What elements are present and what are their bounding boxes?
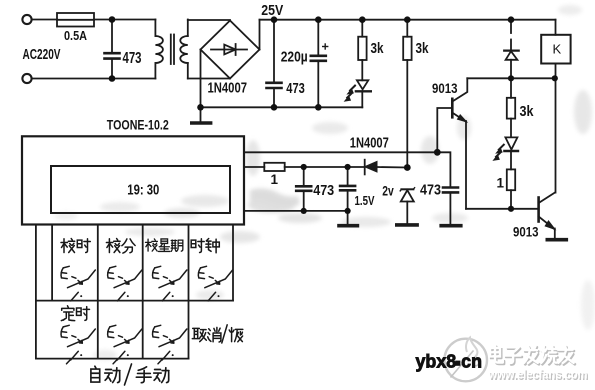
svg-text:1: 1	[497, 176, 505, 191]
svg-text:3k: 3k	[416, 41, 430, 57]
svg-text:1.5V: 1.5V	[355, 194, 376, 208]
svg-text:220µ: 220µ	[281, 50, 308, 66]
svg-text:www.elecfans.com: www.elecfans.com	[488, 368, 588, 382]
svg-text:0.5A: 0.5A	[64, 29, 87, 43]
svg-text:TOONE-10.2: TOONE-10.2	[107, 117, 169, 133]
svg-text:473: 473	[286, 80, 305, 97]
svg-text:ybx8 cn: ybx8 cn	[416, 351, 483, 372]
svg-text:9013: 9013	[432, 81, 458, 96]
svg-text:473: 473	[123, 50, 142, 67]
svg-text:3k: 3k	[371, 41, 385, 57]
svg-text:1N4007: 1N4007	[350, 136, 389, 152]
svg-text:1N4007: 1N4007	[208, 81, 248, 97]
svg-text:3k: 3k	[520, 104, 535, 120]
svg-text:9013: 9013	[513, 224, 539, 239]
svg-text:473: 473	[313, 182, 334, 199]
svg-text:19: 30: 19: 30	[127, 182, 159, 198]
svg-text:AC220V: AC220V	[23, 47, 61, 63]
svg-text:473: 473	[420, 182, 441, 199]
svg-text:K: K	[553, 42, 562, 57]
svg-text:25V: 25V	[261, 2, 283, 19]
svg-text:1: 1	[271, 172, 279, 187]
svg-text:2v: 2v	[382, 184, 394, 199]
